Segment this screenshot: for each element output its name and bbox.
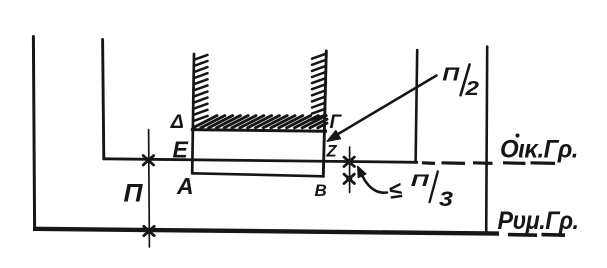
svg-text:Π: Π: [411, 171, 430, 190]
svg-text:2: 2: [464, 77, 479, 100]
svg-text:Π: Π: [124, 180, 144, 208]
svg-text:3: 3: [439, 188, 453, 211]
svg-text:Δ: Δ: [170, 111, 184, 133]
svg-text:Ε: Ε: [173, 137, 189, 163]
svg-text:Π: Π: [442, 63, 460, 84]
svg-text:Ζ: Ζ: [326, 143, 338, 161]
svg-text:Γ: Γ: [330, 112, 343, 133]
svg-text:Οικ.Γρ.: Οικ.Γρ.: [500, 136, 578, 164]
svg-text:Ρυμ.Γρ.: Ρυμ.Γρ.: [498, 207, 579, 235]
svg-text:Β: Β: [315, 181, 327, 200]
svg-text:Α: Α: [176, 173, 194, 199]
